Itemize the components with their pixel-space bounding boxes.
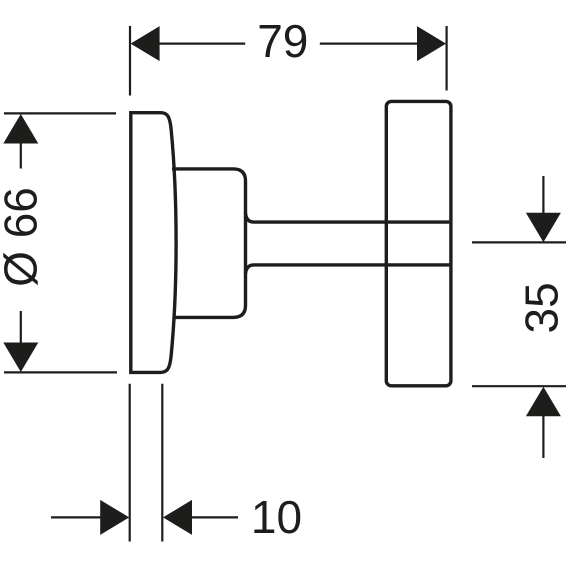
dim 35: top extension line (472, 241, 566, 243)
dim 35: top leader line (542, 176, 544, 214)
dim 66: lower line segment (20, 311, 22, 344)
cross handle (386, 101, 451, 385)
dim 35: bottom arrow (up) (526, 387, 561, 417)
dim 79: right extension line (446, 26, 448, 91)
svg-text:10: 10 (251, 491, 302, 543)
dim 35: bottom leader line (542, 415, 544, 458)
dim 79: left extension line (129, 26, 131, 96)
svg-text:35: 35 (516, 282, 568, 333)
handle hub body (172, 169, 246, 318)
rosette (wall plate) outline (131, 113, 176, 373)
stem top line with fillet (246, 213, 450, 222)
svg-text:79: 79 (257, 15, 308, 67)
dim 66: down arrow (3, 343, 38, 373)
dim 79: left arrow (131, 26, 160, 61)
dim 35: top arrow (down) (526, 213, 561, 243)
dim 10: left tail line (51, 516, 102, 518)
dim 10: left extension line (129, 384, 131, 542)
dim 79: line left segment (158, 42, 245, 44)
dim 10: left arrow (right-pointing) (100, 500, 129, 535)
dim 10: right tail line (191, 516, 239, 518)
svg-text:Ø 66: Ø 66 (0, 187, 47, 287)
dim 66: upper line segment (20, 142, 22, 169)
dim 66: top extension line (4, 112, 116, 114)
dim 79: right arrow (417, 26, 446, 61)
dim 66: up arrow (3, 114, 38, 144)
dim 66: bottom extension line (4, 371, 117, 373)
dim 10: right arrow (left-pointing) (163, 500, 192, 535)
stem bottom line with fillet (246, 265, 450, 274)
dim 79: line right segment (320, 42, 419, 44)
dim 35: bottom extension line (472, 385, 566, 387)
dim 10: right extension line (161, 384, 163, 542)
